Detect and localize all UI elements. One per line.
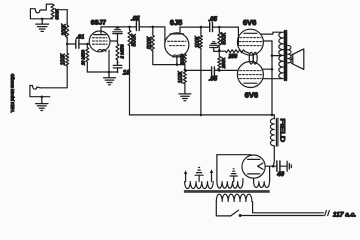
input jack J2	[30, 86, 50, 97]
junction dot jack1 ground	[41, 18, 44, 21]
bypass cap to ground (inverter)	[210, 45, 218, 47]
svg-text:Gibson Model KEH.: Gibson Model KEH.	[10, 74, 15, 113]
svg-text:117 a.c.: 117 a.c.	[333, 212, 357, 219]
svg-text:6SJ7: 6SJ7	[91, 20, 107, 27]
5Y3 filament bar	[248, 173, 260, 175]
svg-text:250K: 250K	[221, 57, 226, 70]
svg-text:2 MEG: 2 MEG	[120, 44, 125, 60]
wire heater top	[217, 154, 251, 156]
svg-text:100K: 100K	[60, 53, 66, 65]
svg-text:500K: 500K	[132, 34, 138, 47]
ground (jack 2)	[36, 97, 48, 111]
wire R2 to node A	[66, 38, 68, 45]
field coil core	[276, 118, 278, 146]
output transformer primary	[279, 32, 284, 78]
tube 6SJ7 envelope	[89, 31, 110, 52]
svg-text:6V6: 6V6	[243, 18, 257, 27]
svg-text:40: 40	[276, 171, 284, 178]
wire wiper to R2	[56, 9, 67, 11]
wire upper 6V6 screen	[263, 40, 272, 42]
6SJ7 grids (dashed)	[92, 38, 107, 44]
wire node A to C1	[67, 43, 75, 45]
junction dot rail bus	[271, 114, 274, 117]
plate load 100K (R10)	[199, 27, 202, 48]
C2 lead	[117, 68, 119, 72]
wire upper 6V6 plate	[261, 32, 282, 34]
resistor 100K (R2)	[66, 25, 69, 37]
tube 6J5 envelope	[165, 33, 189, 57]
wire R5 to C2	[117, 41, 119, 65]
ground (divider)	[179, 94, 191, 101]
wire to upper 6V6 grid	[237, 27, 239, 45]
screen bus	[271, 41, 273, 115]
wire C4 to upper grid node	[213, 26, 239, 28]
node A junction	[66, 43, 69, 46]
grid resistor 500K (R11)	[218, 27, 221, 47]
wire R7 to cathode line	[153, 51, 185, 65]
switch pivot dot	[239, 214, 242, 217]
svg-text:250: 250	[227, 54, 237, 60]
output transformer secondary	[288, 45, 291, 63]
input jack J1	[30, 4, 52, 19]
6J5 cathode lead	[176, 57, 178, 64]
grid resistor 10 MEG (R4)	[86, 44, 89, 72]
junction dot plate load	[128, 26, 131, 29]
6SJ7 cathode	[98, 49, 106, 51]
wire C5 to lower grid	[215, 69, 238, 71]
tube 6V6 lower envelope	[237, 62, 263, 88]
node B junction	[86, 43, 89, 46]
junction dot rectifier output	[272, 165, 275, 168]
svg-text:500K: 500K	[221, 32, 227, 45]
tube 6V6 upper envelope	[237, 29, 263, 55]
ground (inverter bypass, inverted)	[211, 42, 216, 44]
wire down to R2	[66, 10, 68, 26]
heater winding 6.3V	[217, 182, 243, 189]
5Y3 plate bar	[248, 158, 260, 160]
6V6 upper grids (dashed)	[239, 38, 262, 46]
svg-text:6J5: 6J5	[170, 18, 182, 27]
cathode loop left	[249, 52, 253, 64]
wire R3 to jack 2	[40, 66, 67, 88]
svg-text:.05: .05	[208, 16, 217, 23]
junction dot CT tap	[271, 54, 274, 57]
wire C6 to ground	[280, 165, 287, 167]
screen resistor 2 MEG (R5)	[116, 44, 119, 60]
wire 5Y3 bottom lead	[253, 178, 255, 181]
tube 5Y3 envelope	[242, 155, 265, 178]
capacitor .05 (C3)	[136, 21, 139, 31]
svg-text:100K: 100K	[62, 23, 68, 35]
svg-text:FIELD: FIELD	[278, 119, 285, 143]
screen bypass cap to ground	[113, 32, 122, 41]
wire field coil to rectifier	[273, 146, 274, 166]
HV winding	[185, 182, 214, 189]
svg-text:.01: .01	[76, 34, 84, 40]
power switch	[216, 215, 230, 217]
wire tap run	[185, 69, 211, 72]
grid resistor 500K (R7)	[151, 27, 154, 51]
wire R11 to node C	[218, 47, 220, 51]
plate load 500K (R6)	[128, 27, 131, 46]
6J5 plate bar	[170, 32, 183, 35]
ground (jack 1)	[36, 19, 49, 32]
capacitor .05 (C4)	[210, 23, 213, 32]
junction dot jack2 ground	[41, 96, 44, 99]
resistor 100K (R3)	[66, 44, 69, 66]
junction dot grid resistor	[152, 26, 155, 29]
wire R8 to R9	[184, 64, 186, 70]
6SJ7 plate bar	[94, 31, 106, 35]
capacitor .05 (C5)	[212, 67, 215, 76]
AC line break marks	[325, 211, 330, 216]
6J5 plate lead	[179, 27, 181, 33]
HV center tap ground	[195, 168, 203, 182]
svg-text:100K: 100K	[178, 71, 184, 84]
volume pot 500K (R1)	[51, 4, 54, 18]
field coil winding	[270, 119, 274, 146]
wire 6SJ7 plate run	[101, 26, 136, 28]
HV lead arrow left	[185, 173, 187, 181]
primary left lead	[215, 202, 217, 216]
junction dot 6J5 cathode	[176, 63, 179, 66]
B+ rail	[130, 114, 275, 116]
switch lever	[231, 210, 239, 216]
wire 5Y3 cathode down	[269, 166, 271, 181]
heater CT ground	[230, 169, 237, 182]
cathode loop right	[253, 52, 257, 64]
bias resistor 2000 (R8)	[183, 54, 186, 64]
junction dot screen cap	[117, 62, 119, 64]
heater winding right lead	[242, 179, 244, 182]
svg-text:500K: 500K	[147, 36, 153, 49]
transformer core (laminations)	[184, 190, 270, 193]
pot wiper arrow	[54, 9, 56, 11]
capacitor 10 (C2)	[113, 65, 122, 68]
wire lower 6V6 plate	[263, 78, 281, 80]
wire lower 6V6 screen	[262, 68, 272, 70]
node C junction	[218, 49, 221, 52]
junction dot lower screen	[271, 68, 274, 71]
capacitor .01 (C1)	[76, 40, 79, 48]
wire R9 to ground	[184, 84, 186, 94]
bias resistor 250 (R13)	[219, 50, 249, 54]
svg-text:.05: .05	[209, 77, 218, 83]
AC line lower	[240, 215, 323, 217]
junction dot rail R10	[200, 114, 203, 117]
wire C3 to 6J5 grid	[140, 27, 165, 43]
wire rail to field coil	[273, 115, 275, 119]
junction dot lower grid node	[218, 69, 221, 72]
speaker voice coil	[291, 54, 293, 64]
wire center tap	[272, 55, 281, 57]
6V6 lower grids (dashed)	[239, 71, 262, 79]
6SJ7 screen wire	[110, 40, 118, 42]
wire heater left	[216, 155, 218, 182]
HV lead arrow right	[211, 172, 213, 181]
6J5 cathode	[173, 55, 181, 57]
junction dot 6J5 plate load	[200, 26, 203, 29]
junction dot upper grid node	[218, 26, 221, 29]
junction dot cathode	[108, 71, 111, 74]
rectifier heater winding 5V	[254, 182, 270, 188]
svg-text:100K: 100K	[195, 36, 201, 48]
grid resistor 250K (R12)	[218, 51, 221, 71]
divider resistor 100K (R9)	[183, 70, 186, 84]
6V6 lower plate bar	[244, 82, 257, 84]
speaker horn	[293, 49, 304, 70]
svg-text:10 MEG: 10 MEG	[81, 49, 86, 65]
wire 6J5 plate run	[180, 26, 209, 28]
svg-text:.05: .05	[131, 16, 140, 23]
6SJ7 plate lead	[100, 27, 102, 31]
output transformer core	[285, 31, 287, 81]
wire node C to bypass cap	[214, 48, 220, 52]
wire 5Y3 output	[265, 165, 276, 167]
6SJ7 cathode lead	[108, 50, 110, 72]
wire cathode line	[87, 71, 117, 73]
ground (6SJ7 cathode)	[104, 72, 116, 85]
primary right lead	[252, 202, 254, 213]
junction dot cathode line	[117, 71, 119, 73]
6V6 upper plate bar	[244, 32, 257, 34]
junction dot tap	[184, 69, 187, 72]
5Y3 plate arrow	[258, 163, 263, 169]
ground (screen, inverted)	[115, 28, 121, 30]
wire R6 to B+ rail	[129, 46, 131, 115]
svg-text:6V6: 6V6	[245, 91, 259, 100]
filter cap 40 (C6)	[277, 161, 280, 171]
6J5 grid (dashed)	[168, 41, 186, 45]
wire C1 to node B	[79, 43, 89, 45]
primary winding	[216, 194, 252, 201]
wire R10 to B+ rail	[200, 48, 202, 115]
AC line upper	[253, 212, 324, 214]
ground (filter, horizontal)	[287, 161, 291, 171]
